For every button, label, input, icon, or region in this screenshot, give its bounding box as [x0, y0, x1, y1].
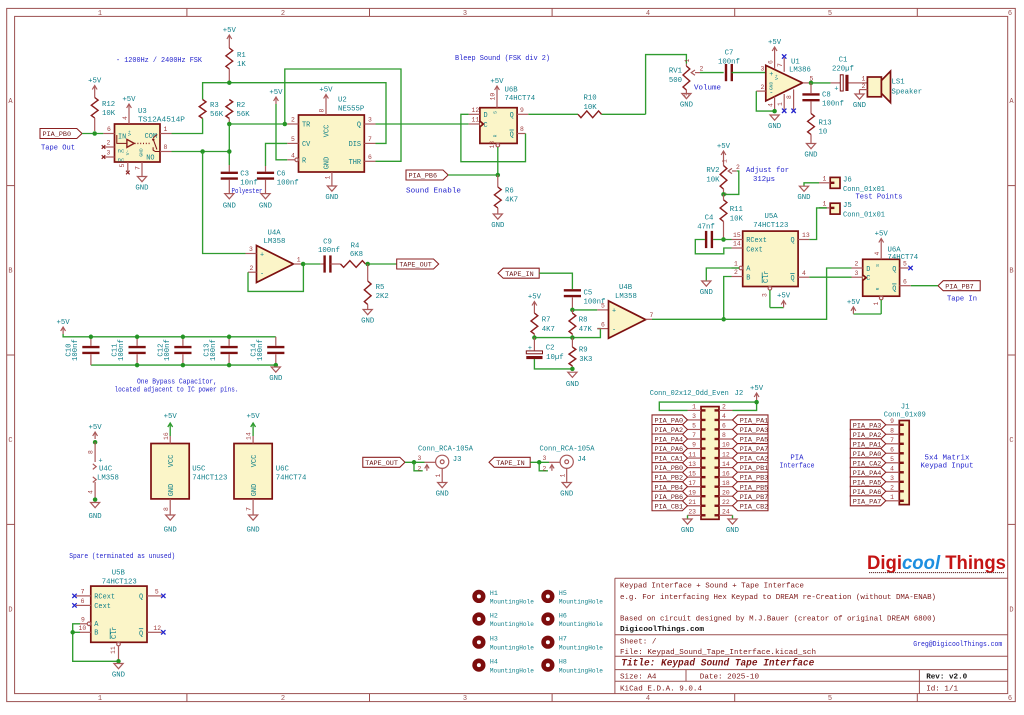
- svg-text:+5V: +5V: [269, 89, 283, 97]
- svg-text:C: C: [484, 122, 488, 130]
- svg-text:4: 4: [122, 116, 129, 120]
- svg-text:100nf: 100nf: [72, 339, 80, 361]
- svg-text:4: 4: [874, 252, 881, 256]
- svg-text:3: 3: [463, 10, 467, 18]
- svg-text:MountingHole: MountingHole: [490, 621, 534, 628]
- power +5V U5C: [163, 413, 178, 444]
- svg-text:C: C: [1009, 437, 1013, 445]
- svg-text:PIA_PB6: PIA_PB6: [409, 173, 438, 181]
- resistor R13: [808, 114, 832, 144]
- pin 1 J4: [559, 468, 566, 482]
- svg-text:Rev: v2.0: Rev: v2.0: [926, 673, 967, 681]
- pin 10 U5B: [79, 625, 91, 632]
- svg-text:6: 6: [1008, 695, 1012, 703]
- svg-text:Speaker: Speaker: [892, 89, 923, 97]
- svg-text:10: 10: [490, 93, 497, 101]
- ground U5C: [164, 515, 178, 535]
- pin 3 J3: [418, 455, 436, 463]
- svg-text:6: 6: [903, 278, 907, 285]
- svg-text:J5: J5: [843, 202, 852, 210]
- wire U4B out: [652, 318, 724, 320]
- capacitor C14: [250, 337, 284, 365]
- svg-text:U6B: U6B: [505, 87, 519, 95]
- ground J6: [797, 186, 811, 202]
- pin 3 J4: [543, 455, 561, 463]
- svg-text:GND: GND: [89, 513, 103, 521]
- svg-text:GND: GND: [491, 222, 505, 230]
- svg-text:C: C: [8, 437, 12, 445]
- global label TAPE_IN J4: [489, 457, 530, 468]
- mounting hole H2: [472, 612, 534, 628]
- pin 8 J2: [719, 432, 733, 439]
- svg-text:Based on circuit designed by M: Based on circuit designed by M.J.Bauer (…: [620, 616, 936, 624]
- svg-text:GND: GND: [269, 375, 283, 383]
- svg-text:GND: GND: [797, 194, 811, 202]
- wire C5 to +in: [572, 309, 597, 311]
- pin 8 U3 NO: [160, 144, 172, 151]
- svg-text:10K: 10K: [730, 216, 744, 224]
- svg-text:Q: Q: [357, 122, 361, 130]
- svg-text:1K: 1K: [237, 61, 246, 69]
- svg-text:9: 9: [692, 442, 696, 449]
- svg-text:3: 3: [890, 475, 894, 482]
- svg-text:5x4 Matrix: 5x4 Matrix: [925, 455, 971, 463]
- svg-text:2: 2: [543, 465, 547, 472]
- wire PB6 to R6: [448, 174, 498, 176]
- svg-text:6: 6: [722, 423, 726, 430]
- svg-text:10K: 10K: [706, 177, 720, 185]
- svg-text:2: 2: [855, 261, 859, 268]
- svg-text:One Bypass Capacitor,: One Bypass Capacitor,: [137, 379, 217, 387]
- svg-text:56K: 56K: [237, 111, 251, 119]
- svg-text:located adjacent to IC power p: located adjacent to IC power pins.: [115, 386, 239, 394]
- svg-text:16: 16: [163, 432, 170, 440]
- svg-text:nc: nc: [118, 157, 125, 164]
- wire DIS net: [203, 83, 386, 144]
- svg-text:J6: J6: [843, 177, 852, 185]
- svg-text:Tape In: Tape In: [947, 296, 977, 304]
- svg-text:LM358: LM358: [615, 293, 637, 301]
- pin 5 U2: [287, 136, 298, 143]
- ground J3: [436, 483, 450, 499]
- svg-text:C8: C8: [822, 92, 831, 100]
- date field: [700, 673, 760, 681]
- svg-text:MountingHole: MountingHole: [490, 667, 534, 674]
- global label PIA_CA2 right: [733, 453, 769, 464]
- wire RV1 to C7: [700, 72, 724, 74]
- svg-text:8: 8: [164, 144, 168, 151]
- svg-text:74HCT123: 74HCT123: [102, 578, 137, 586]
- svg-text:- 1200Hz / 2400Hz FSK: - 1200Hz / 2400Hz FSK: [116, 57, 203, 65]
- svg-text:1: 1: [435, 474, 442, 478]
- svg-text:H4: H4: [490, 659, 498, 666]
- svg-text:R: R: [493, 134, 499, 137]
- svg-text:9: 9: [81, 617, 85, 624]
- svg-text:Title: Keypad Sound Tape Inter: Title: Keypad Sound Tape Interface: [621, 658, 814, 670]
- svg-text:PIA_PB0: PIA_PB0: [43, 131, 72, 139]
- global label PIA_PB1 right: [733, 463, 769, 474]
- svg-text:14: 14: [246, 432, 253, 440]
- pin 2 J3: [414, 462, 429, 472]
- svg-text:8: 8: [319, 109, 326, 113]
- comment line 3: [620, 616, 936, 624]
- svg-text:4: 4: [88, 490, 95, 494]
- svg-text:14: 14: [722, 461, 730, 468]
- svg-text:R: R: [875, 287, 881, 290]
- svg-text:GND: GND: [135, 185, 149, 193]
- svg-text:R7: R7: [542, 317, 551, 325]
- svg-text:+5V: +5V: [122, 96, 136, 104]
- svg-text:7: 7: [368, 136, 372, 143]
- svg-text:LS1: LS1: [892, 79, 906, 87]
- svg-text:+: +: [260, 252, 264, 260]
- svg-text:Q: Q: [139, 630, 143, 638]
- resistor R2: [226, 100, 250, 120]
- connector J6: [830, 177, 885, 195]
- junction NO/down: [200, 149, 205, 154]
- svg-text:7: 7: [135, 166, 142, 170]
- global label PIA_PB0: [40, 129, 82, 153]
- svg-text:6: 6: [107, 126, 111, 133]
- capacitor C8: [802, 83, 844, 114]
- svg-text:4: 4: [767, 103, 774, 107]
- svg-text:VCC: VCC: [251, 455, 259, 467]
- svg-text:COM: COM: [145, 133, 157, 141]
- svg-text:1: 1: [684, 59, 691, 63]
- svg-text:1: 1: [873, 302, 880, 306]
- pin 4 U1: [767, 97, 774, 112]
- file field: [620, 649, 816, 657]
- pin 19 J2: [688, 489, 702, 496]
- wire PB0 to U3: [82, 133, 103, 135]
- pin 9 U5B: [80, 617, 91, 626]
- svg-text:2K2: 2K2: [376, 293, 389, 301]
- svg-text:3: 3: [761, 66, 765, 73]
- wire NO net: [172, 124, 230, 172]
- capacitor C6: [257, 171, 299, 194]
- capacitor C9: [318, 239, 340, 273]
- svg-text:NO: NO: [146, 155, 154, 163]
- pin 11 J2: [688, 451, 702, 458]
- global label PIA_CB2 right: [733, 501, 769, 512]
- note FSK frequencies: [116, 57, 203, 65]
- pin 7 U3: [135, 162, 143, 176]
- global label PIA_PA5 right: [733, 434, 769, 445]
- note PIA interface: [780, 455, 815, 471]
- svg-text:16: 16: [722, 470, 730, 477]
- svg-text:14: 14: [733, 241, 741, 248]
- svg-text:56K: 56K: [210, 111, 224, 119]
- svg-text:22: 22: [722, 499, 730, 506]
- svg-text:3: 3: [368, 117, 372, 124]
- mounting hole H3: [472, 636, 534, 652]
- pin 8 U6B: [517, 126, 525, 133]
- svg-text:Spare (terminated as unused): Spare (terminated as unused): [69, 553, 175, 561]
- svg-text:+5V: +5V: [777, 293, 791, 301]
- pin 10 J2: [719, 442, 733, 449]
- ground R13: [804, 144, 818, 160]
- svg-text:2: 2: [107, 140, 111, 147]
- global label PIA_PA1 right: [733, 415, 769, 426]
- svg-text:+5V: +5V: [319, 87, 333, 95]
- svg-text:220µf: 220µf: [832, 66, 854, 74]
- global label PIA_PB6: [406, 170, 461, 196]
- svg-text:7: 7: [777, 63, 784, 67]
- mounting hole H7: [541, 636, 603, 652]
- svg-text:Q: Q: [510, 112, 514, 120]
- svg-text:B: B: [746, 274, 750, 282]
- wire U6B feedback: [461, 114, 526, 161]
- note spare: [69, 553, 175, 561]
- wire J2 power loop: [659, 402, 756, 410]
- junction U5B 11: [116, 659, 121, 664]
- svg-text:4K7: 4K7: [542, 326, 555, 334]
- pin 5 U5B nc: [147, 589, 166, 599]
- svg-text:H5: H5: [559, 590, 567, 597]
- pin 2 U5A: [732, 269, 743, 276]
- pin 2 U4A: [248, 265, 257, 272]
- resistor R1: [226, 42, 246, 83]
- power +5V R1: [223, 27, 237, 42]
- svg-text:Digicool Things: Digicool Things: [867, 553, 1006, 574]
- op-amp U4B LM358: [609, 284, 646, 338]
- svg-text:Polyester: Polyester: [232, 188, 263, 196]
- wire R4 to label: [366, 263, 397, 265]
- power +5V RV2: [717, 143, 731, 158]
- pin 13 U5A: [798, 232, 810, 240]
- pin 6 U5B nc: [72, 598, 91, 608]
- ground C3: [223, 194, 237, 211]
- power +5V U1: [767, 39, 781, 69]
- pin 4 U5A: [798, 270, 809, 277]
- svg-text:R2: R2: [237, 102, 246, 110]
- svg-text:Q: Q: [510, 132, 514, 140]
- svg-text:+5V: +5V: [490, 78, 504, 86]
- capacitor C10: [65, 337, 99, 365]
- junction R8 bottom: [570, 335, 575, 340]
- ground U5A A: [700, 281, 714, 297]
- pin 3 U1: [761, 66, 765, 73]
- svg-text:312µs: 312µs: [753, 176, 775, 184]
- pin 21 J2: [688, 499, 702, 506]
- wire C1 to LS1: [849, 82, 858, 84]
- connector J1 label: [884, 404, 926, 420]
- svg-text:J1: J1: [901, 404, 910, 412]
- svg-text:1: 1: [777, 102, 784, 106]
- svg-text:R5: R5: [376, 284, 385, 292]
- op-amp U4A LM358: [257, 230, 294, 283]
- ic unit U5C power: [151, 444, 227, 499]
- svg-text:S: S: [493, 111, 499, 114]
- svg-text:R13: R13: [819, 120, 832, 128]
- junction bypass top: [181, 335, 186, 340]
- ground C6: [259, 194, 273, 211]
- power +5V U6C: [246, 413, 261, 444]
- resistor R11: [720, 194, 743, 239]
- connector J3 label: [418, 446, 474, 454]
- svg-text:1: 1: [559, 474, 566, 478]
- junction R4/R5: [365, 262, 370, 267]
- wire Q to U6B: [376, 123, 469, 125]
- svg-text:3K3: 3K3: [579, 356, 592, 364]
- svg-text:4K7: 4K7: [505, 197, 518, 205]
- svg-text:MountingHole: MountingHole: [559, 599, 603, 606]
- svg-text:1: 1: [721, 159, 728, 163]
- global label PIA_PA6: [652, 444, 688, 455]
- svg-text:74HCT74: 74HCT74: [276, 475, 307, 483]
- junction C5/R8: [570, 308, 575, 313]
- pin 5 J1: [886, 456, 900, 463]
- ground R5: [361, 310, 375, 326]
- svg-text:+5V: +5V: [57, 319, 71, 327]
- svg-text:8: 8: [786, 95, 793, 99]
- ic unit U6C power: [234, 444, 307, 499]
- svg-text:U1: U1: [791, 59, 800, 67]
- svg-text:1: 1: [823, 201, 827, 208]
- svg-text:9: 9: [890, 418, 894, 425]
- wire TR-THR loop: [285, 69, 401, 161]
- svg-text:15: 15: [733, 232, 741, 239]
- pin 2 J2: [719, 404, 733, 411]
- svg-text:Conn_02x12_Odd_Even: Conn_02x12_Odd_Even: [650, 390, 729, 398]
- global label PIA_CA1: [652, 453, 688, 464]
- power +5V R7: [528, 294, 542, 309]
- pin 8 U5C: [163, 499, 170, 515]
- global label TAPE_IN: [498, 268, 539, 279]
- svg-text:GND: GND: [247, 527, 261, 535]
- svg-text:+5V: +5V: [875, 231, 889, 239]
- svg-text:D: D: [1009, 607, 1013, 615]
- svg-text:GND: GND: [251, 484, 259, 496]
- svg-text:Volume: Volume: [694, 85, 721, 93]
- svg-text:1: 1: [823, 176, 827, 183]
- svg-text:nc: nc: [118, 148, 125, 155]
- svg-text:DigicoolThings.com: DigicoolThings.com: [620, 626, 704, 634]
- comment line 1: [620, 583, 804, 591]
- pin 1 U4A: [293, 257, 303, 264]
- svg-text:24: 24: [722, 508, 730, 515]
- svg-text:LM358: LM358: [264, 238, 286, 246]
- pin 5 U6A nc: [900, 261, 913, 271]
- svg-text:Cext: Cext: [746, 246, 763, 254]
- J2 pin pads: [701, 410, 719, 515]
- svg-text:2: 2: [734, 269, 738, 276]
- svg-text:C2: C2: [546, 345, 555, 353]
- svg-text:DIS: DIS: [349, 141, 361, 149]
- svg-text:MountingHole: MountingHole: [559, 621, 603, 628]
- pin 2 U1: [756, 84, 766, 91]
- capacitor C5: [564, 290, 606, 310]
- svg-text:R3: R3: [210, 102, 219, 110]
- pin 7 U5B nc: [72, 589, 91, 599]
- wire Q9 to R10: [528, 55, 686, 115]
- junction R2 bottom: [227, 122, 232, 127]
- rca jack J3: [436, 455, 462, 468]
- svg-text:U5A: U5A: [765, 213, 779, 221]
- pin 6 J2: [719, 423, 733, 430]
- resistor R10: [578, 95, 602, 118]
- resistor R5: [364, 264, 388, 310]
- pin 2 U3 nc: [102, 140, 115, 149]
- sheet field: [620, 638, 657, 646]
- pin 8 J1: [886, 428, 900, 435]
- pin 18 J2: [719, 480, 733, 487]
- pin 4 U3 +5V: [122, 96, 136, 124]
- ground bypass: [269, 367, 283, 383]
- wire U5B inputs: [73, 624, 119, 662]
- ground U1: [768, 115, 782, 131]
- svg-text:Keypad Input: Keypad Input: [921, 463, 974, 471]
- pin 1 U6A clr: [873, 296, 883, 314]
- svg-text:Id: 1/1: Id: 1/1: [926, 685, 958, 693]
- pin 14 U5A: [732, 241, 743, 248]
- junction B/main: [721, 317, 726, 322]
- svg-text:10K: 10K: [102, 110, 116, 118]
- svg-text:GND: GND: [324, 157, 332, 169]
- svg-text:Q: Q: [790, 237, 794, 245]
- junction bypass gnd: [274, 363, 279, 368]
- svg-text:2: 2: [700, 66, 704, 73]
- svg-text:4: 4: [291, 153, 295, 160]
- pin 1 LS1: [858, 76, 868, 83]
- pin 3 U6A: [852, 270, 863, 277]
- svg-text:6: 6: [1008, 10, 1012, 18]
- svg-text:500: 500: [669, 77, 682, 85]
- global label PIA_PA1 J1: [850, 439, 886, 450]
- wire C2 to gnd: [534, 359, 572, 369]
- capacitor C3: [221, 171, 263, 196]
- svg-text:+5V: +5V: [768, 39, 782, 47]
- junction bypass bottom: [227, 363, 232, 368]
- pin 7 U1 nc: [777, 54, 787, 72]
- junction J4: [537, 460, 542, 465]
- timer U2 NE555P: [299, 97, 365, 173]
- svg-text:+5V: +5V: [223, 27, 237, 35]
- monostable U5B 74HCT123: [91, 570, 147, 643]
- wire main to D: [724, 268, 852, 319]
- mounting hole H6: [541, 612, 603, 628]
- rca jack J4: [560, 455, 586, 468]
- svg-text:1: 1: [164, 126, 168, 133]
- wire J2 gnd 24: [732, 515, 734, 519]
- svg-text:6: 6: [601, 321, 605, 328]
- global label PIA_PA0: [652, 415, 688, 426]
- svg-text:47K: 47K: [579, 326, 593, 334]
- svg-text:11: 11: [472, 117, 480, 124]
- capacitor C1 polarized: [832, 57, 854, 94]
- svg-text:Clr: Clr: [111, 627, 119, 639]
- global label PIA_PA4 J1: [850, 467, 886, 478]
- wire bypass rails: [63, 334, 276, 365]
- id field: [926, 685, 958, 693]
- svg-text:PIA: PIA: [790, 455, 804, 463]
- svg-text:H7: H7: [559, 636, 567, 643]
- junction U1 gnd: [772, 109, 777, 114]
- svg-text:e.g. For interfacing Hex Keypa: e.g. For interfacing Hex Keypad to DREAM…: [620, 594, 936, 602]
- pin 3 U5A clr: [762, 287, 772, 308]
- svg-text:R4: R4: [351, 243, 360, 251]
- svg-text:100nf: 100nf: [164, 339, 172, 361]
- power +5V U6A: [874, 231, 889, 260]
- logo DigiCool Things: [867, 553, 1006, 574]
- svg-text:13: 13: [688, 461, 696, 468]
- junction PB6/R6: [496, 173, 501, 178]
- svg-text:12: 12: [153, 625, 161, 632]
- svg-text:21: 21: [688, 499, 696, 506]
- svg-text:Date: 2025-10: Date: 2025-10: [700, 673, 760, 681]
- svg-text:4: 4: [646, 10, 650, 18]
- pin 2 J1: [886, 485, 900, 492]
